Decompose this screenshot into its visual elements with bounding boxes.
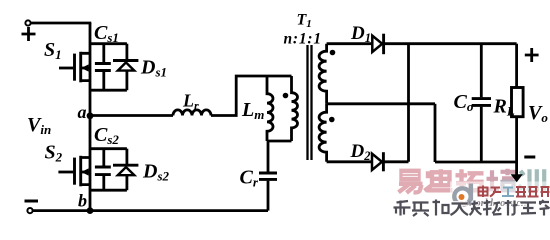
svg-text:Ds1: Ds1 [140, 57, 167, 80]
wire D2 cathode to riser [383, 160, 408, 163]
diode Ds1 [113, 44, 138, 90]
wire bottom rail [33, 209, 268, 212]
diode Ds2 [113, 149, 138, 191]
node a [87, 112, 94, 119]
capacitor Cs2 [95, 149, 111, 191]
label - input [25, 200, 39, 203]
terminal input negative [27, 208, 32, 213]
svg-text:T1: T1 [297, 12, 312, 31]
wire Cs2/Ds2 branch bottom [90, 189, 127, 192]
wire Lm/primary bottom [267, 140, 292, 143]
svg-text:Cr: Cr [240, 167, 259, 190]
svg-text:Vin: Vin [27, 114, 51, 137]
diode D1 [372, 34, 383, 55]
svg-text:S1: S1 [44, 39, 62, 62]
svg-text:Lm: Lm [241, 99, 264, 122]
svg-text:Lr: Lr [182, 91, 199, 113]
svg-text:Co: Co [454, 91, 474, 114]
transformer T1 secondary top winding [319, 44, 327, 104]
svg-text:a: a [78, 102, 87, 122]
capacitor Co [472, 44, 491, 162]
wire center tap riser [434, 104, 437, 162]
polarity dot secondary top [330, 50, 336, 56]
svg-text:S2: S2 [45, 142, 63, 165]
wire minus rail [435, 161, 517, 164]
diode D2 [372, 152, 383, 171]
capacitor Cr [259, 141, 277, 211]
svg-text:Vo: Vo [528, 102, 548, 125]
wire RL to minus rail [515, 117, 518, 162]
wire D1 cathode to + rail [384, 42, 517, 45]
wire + rail drop to RL [515, 44, 518, 88]
wire Lr to primary top [211, 76, 292, 116]
terminal input positive [25, 20, 30, 25]
svg-text:D2: D2 [350, 141, 371, 163]
label - output [524, 156, 535, 159]
svg-text:D1: D1 [350, 23, 371, 45]
svg-text:Cs2: Cs2 [94, 124, 119, 147]
resistor RL [512, 88, 524, 117]
wire left bus (S1/S2 drain-source) [89, 23, 92, 211]
wire Cs1/Ds1 branch bottom [90, 89, 127, 92]
transformer T1 primary winding [292, 76, 298, 141]
transformer T1 secondary bottom winding [319, 104, 327, 162]
wire cathode riser [407, 44, 410, 162]
ground [511, 162, 523, 182]
svg-text:b: b [78, 191, 87, 211]
polarity dot primary [283, 93, 289, 99]
transformer T1 core [308, 45, 312, 160]
svg-text:n:1:1: n:1:1 [284, 30, 322, 47]
svg-text:Ds2: Ds2 [142, 161, 170, 184]
node b [87, 207, 94, 214]
wire top rail [31, 22, 92, 25]
wire secondary top to D1 [327, 42, 372, 45]
wire secondary bottom to D2 [327, 160, 372, 163]
transistor S2 [58, 156, 90, 187]
inductor Lr [173, 110, 211, 116]
wire Cs1/Ds1 branch top [90, 42, 127, 45]
label + input [22, 27, 36, 41]
wire Cs2/Ds2 branch top [90, 147, 127, 150]
capacitor Cs1 [95, 44, 111, 90]
watermark overlay (brand text, drawn under circuit) [394, 169, 550, 216]
inductor Lm [267, 76, 273, 141]
wire center tap [327, 102, 435, 105]
svg-text:Cs1: Cs1 [94, 22, 119, 45]
label + output [525, 48, 539, 62]
wire node a to Lr [90, 114, 173, 117]
transistor S1 [59, 52, 90, 83]
polarity dot secondary bottom [329, 117, 335, 123]
